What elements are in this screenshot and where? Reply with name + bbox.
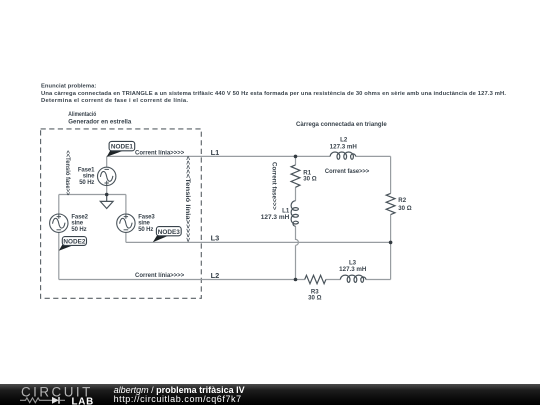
wire Fase3 stem <box>125 195 127 243</box>
footer credits text <box>114 386 245 404</box>
svg-text:Corrent línia>>>>: Corrent línia>>>> <box>135 150 185 157</box>
wire L2 <box>59 279 391 281</box>
label L3 value <box>339 259 366 273</box>
svg-text:Fase1: Fase1 <box>78 168 95 174</box>
node NODE2 flag <box>59 237 87 251</box>
wire lower right vertical <box>390 242 392 279</box>
problem statement text <box>41 84 506 104</box>
label Alimentacio / Generador en estrella <box>68 111 132 125</box>
node NODE3 flag <box>153 227 181 243</box>
svg-text:NODE3: NODE3 <box>158 229 180 236</box>
wire middle branch R1-L1 with hop over L3 <box>296 156 299 279</box>
svg-text:Enunciat problema:: Enunciat problema: <box>41 84 96 90</box>
svg-text:127.3 mH: 127.3 mH <box>339 266 366 273</box>
svg-text:50 Hz: 50 Hz <box>138 227 153 233</box>
svg-text:30 Ω: 30 Ω <box>398 205 411 212</box>
svg-text:Corrent línia>>>>: Corrent línia>>>> <box>135 272 185 279</box>
svg-text:NODE1: NODE1 <box>111 144 133 151</box>
svg-text:Fase3: Fase3 <box>138 214 155 220</box>
label L2 value <box>330 136 357 150</box>
svg-text:L2: L2 <box>211 271 220 280</box>
svg-text:<<Tensió fase>>: <<Tensió fase>> <box>64 150 71 195</box>
label L1 value <box>261 207 290 221</box>
svg-text:L3: L3 <box>211 234 220 243</box>
svg-text:50 Hz: 50 Hz <box>79 180 94 186</box>
wire Fase1 stem <box>106 156 108 194</box>
svg-text:Corrent fase>>>: Corrent fase>>> <box>325 168 370 175</box>
source Fase2 <box>50 214 68 232</box>
svg-text:sine: sine <box>71 221 83 227</box>
svg-text:127.3 mH: 127.3 mH <box>261 214 290 221</box>
resistor R1 <box>291 165 300 187</box>
svg-text:LAB: LAB <box>72 396 95 405</box>
dashed box generator <box>41 129 202 298</box>
resistor R3 <box>305 275 326 283</box>
wire Fase2 stem <box>58 195 60 280</box>
inductor L1 (vertical) <box>291 201 298 226</box>
svg-text:Determina el corrent de fase i: Determina el corrent de fase i el corren… <box>41 98 188 104</box>
label R2 value <box>398 197 411 212</box>
wire L1 <box>107 155 391 157</box>
label R3 value <box>308 289 321 302</box>
source Fase3 <box>117 214 135 232</box>
wire star center horizontal <box>59 194 126 196</box>
junction star center <box>105 193 109 197</box>
svg-text:Alimentació: Alimentació <box>68 111 96 118</box>
svg-text:L1: L1 <box>211 148 220 157</box>
svg-text:30 Ω: 30 Ω <box>303 176 316 183</box>
node NODE1 flag <box>107 141 135 156</box>
label Fase1 <box>78 168 95 186</box>
wire right branch (L2 to R2 to node C) <box>390 156 392 242</box>
svg-text:127.3 mH: 127.3 mH <box>330 143 357 150</box>
junction node C (L3/R2) <box>389 241 393 245</box>
label Fase3 <box>138 214 155 232</box>
inductor L3 (horizontal) <box>340 275 365 282</box>
svg-text:R2: R2 <box>398 197 406 204</box>
label Fase2 <box>71 214 88 232</box>
svg-text:sine: sine <box>138 221 150 227</box>
svg-text:Corrent fase>>>: Corrent fase>>> <box>270 162 277 210</box>
junction node A (L1/R1) <box>294 155 298 159</box>
resistor R2 <box>386 193 395 214</box>
source Fase1 <box>98 167 116 185</box>
CircuitLab logo <box>0 384 110 405</box>
svg-text:<<<<<Tensió línia>>>>>: <<<<<Tensió línia>>>>> <box>184 156 191 243</box>
svg-text:NODE2: NODE2 <box>63 238 85 245</box>
svg-text:50 Hz: 50 Hz <box>71 227 86 233</box>
svg-text:Generador en estrella: Generador en estrella <box>68 119 132 126</box>
svg-text:Càrrega connectada en triangle: Càrrega connectada en triangle <box>296 121 387 128</box>
footer bar <box>0 384 540 405</box>
wire L3 <box>126 241 391 243</box>
junction node B (L2/R3) <box>294 278 298 282</box>
svg-text:Fase2: Fase2 <box>71 214 88 220</box>
svg-text:L2: L2 <box>340 136 348 143</box>
svg-text:30 Ω: 30 Ω <box>308 294 321 301</box>
svg-text:sine: sine <box>83 174 95 180</box>
ground <box>100 195 113 209</box>
inductor L2 (horizontal) <box>330 152 355 159</box>
svg-text:Una càrrega connectada en TRIA: Una càrrega connectada en TRIANGLE a un … <box>41 91 506 97</box>
label R1 value <box>303 170 316 183</box>
